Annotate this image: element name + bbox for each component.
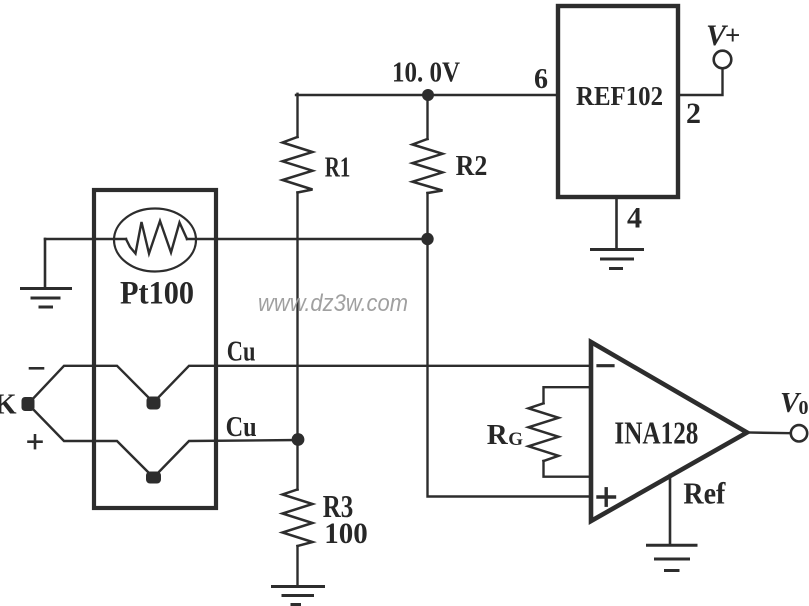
svg-text:R2: R2 xyxy=(456,150,488,182)
svg-text:10. 0V: 10. 0V xyxy=(392,57,460,88)
svg-text:Cu: Cu xyxy=(227,337,256,368)
svg-text:G: G xyxy=(508,429,523,450)
svg-text:K: K xyxy=(0,389,17,421)
svg-text:4: 4 xyxy=(627,202,642,235)
svg-text:2: 2 xyxy=(686,97,701,130)
svg-text:R1: R1 xyxy=(325,152,351,184)
svg-text:Cu: Cu xyxy=(226,412,257,443)
svg-text:INA128: INA128 xyxy=(614,414,698,450)
svg-text:6: 6 xyxy=(534,64,548,95)
svg-text:REF102: REF102 xyxy=(576,81,663,111)
svg-text:Pt100: Pt100 xyxy=(120,276,194,312)
svg-text:www.dz3w.com: www.dz3w.com xyxy=(258,290,408,317)
svg-text:0: 0 xyxy=(799,397,809,419)
svg-text:+: + xyxy=(725,20,740,50)
svg-text:100: 100 xyxy=(324,517,368,550)
svg-text:Ref: Ref xyxy=(683,475,726,510)
svg-text:R: R xyxy=(487,419,509,451)
